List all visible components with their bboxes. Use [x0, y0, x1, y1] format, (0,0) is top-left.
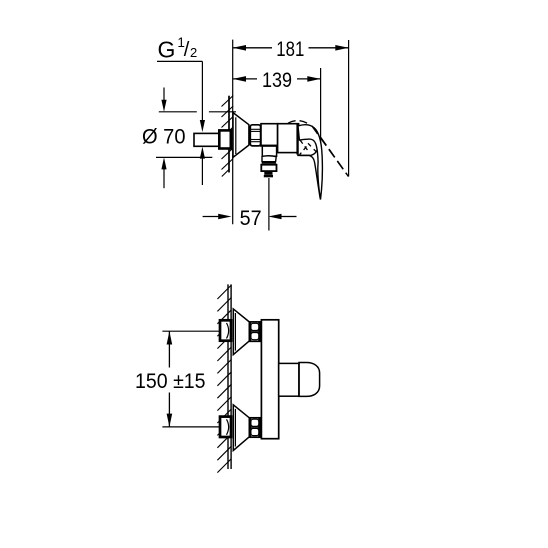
wall hatching (lower view) — [217, 285, 231, 473]
svg-text:/: / — [184, 39, 190, 61]
svg-text:150 ±15: 150 ±15 — [135, 369, 206, 393]
pipe nipple G1/2 — [194, 133, 221, 146]
bottom connection: union nut — [249, 418, 260, 437]
ext line bottom — [156, 156, 212, 158]
extension line right of 139 — [320, 68, 322, 144]
ext line top — [162, 330, 219, 332]
mixer body (plan view) — [261, 320, 278, 439]
outlet flange — [261, 165, 276, 171]
wall line (upper view) — [228, 96, 230, 173]
svg-text:181: 181 — [276, 37, 304, 61]
dimension Ø 70 — [142, 88, 236, 189]
svg-text:G: G — [158, 37, 176, 63]
svg-text:2: 2 — [190, 45, 197, 60]
top connection: union nut — [249, 322, 260, 341]
extension line right of 181 — [348, 40, 350, 177]
threaded nipple — [264, 171, 272, 175]
top connection: wall nut — [220, 320, 231, 340]
bottom connection: escutcheon cone — [233, 405, 249, 451]
arrow up to bottom ext — [163, 168, 165, 188]
dimension 57 — [203, 178, 297, 231]
arrow down to top ext — [163, 88, 165, 102]
dimension 181 — [233, 37, 349, 61]
escutcheon cone (upper view) — [233, 113, 249, 158]
dim line — [168, 331, 170, 367]
wall lines (lower view) — [227, 284, 229, 469]
outlet ring lower — [262, 163, 277, 165]
mixer body cartridge section — [261, 124, 278, 146]
lever handle (solid) — [298, 125, 322, 200]
extension line left (181/139/57, on wall face) — [232, 40, 234, 225]
dimension 150 ±15 — [135, 331, 220, 427]
wall hatching (upper view) — [222, 96, 234, 177]
bottom connection: cone inner edge — [234, 409, 236, 447]
G 1/2 arrow down to pipe top — [200, 120, 205, 132]
svg-text:139: 139 — [262, 68, 292, 92]
dashed rotation arc (small) — [300, 140, 310, 153]
dashed lever arc (top) — [288, 121, 310, 125]
ext line bottom — [162, 426, 220, 428]
svg-text:Ø 70: Ø 70 — [142, 125, 186, 149]
mixer body main section — [278, 124, 299, 153]
union nut (upper view) — [250, 125, 260, 146]
dimension 139 — [233, 68, 321, 92]
outlet lip — [262, 156, 276, 162]
outlet ring upper — [262, 161, 276, 163]
dashed lever raised position — [312, 126, 347, 174]
dashed cross tick — [300, 147, 307, 155]
handle joint line — [298, 363, 300, 397]
bottom connection: pipe end arc — [227, 419, 229, 435]
handle arm (plan view) — [279, 363, 299, 396]
body right thick edge — [296, 125, 299, 155]
lever blade left edge — [300, 155, 321, 199]
top connection: pipe end arc — [227, 323, 229, 339]
leader G 1/2 — [157, 61, 202, 121]
handle cap/hub — [298, 126, 319, 155]
G 1/2 arrow up to pipe bottom — [200, 147, 205, 185]
top connection: cone inner edge — [234, 313, 236, 351]
body base thick line — [260, 145, 277, 147]
bottom connection: wall nut — [220, 417, 231, 437]
label G 1/2 — [158, 35, 198, 63]
top connection: escutcheon cone — [233, 309, 249, 355]
svg-text:57: 57 — [240, 206, 262, 230]
outlet neck — [262, 146, 276, 156]
ext line top — [159, 111, 197, 113]
dashed tick right — [308, 143, 316, 151]
wall nut on nipple — [219, 130, 231, 148]
handle knob (plan view) — [299, 363, 320, 397]
escutcheon inner edge — [235, 117, 237, 154]
